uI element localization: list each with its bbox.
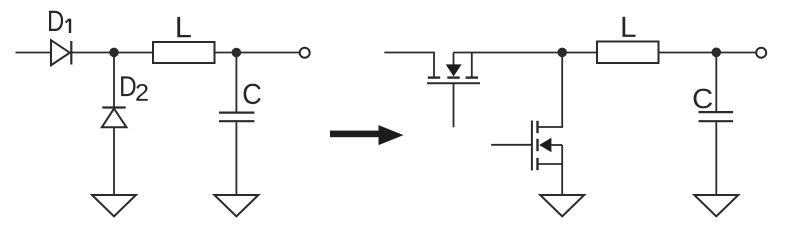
node D junction dot [712, 48, 722, 58]
wire inductor to node D [659, 52, 717, 54]
wire inductor to node B [215, 52, 237, 54]
Q1 body contact [447, 76, 459, 78]
inductor L (right) [597, 42, 659, 64]
Q2 source contact [536, 158, 538, 170]
label D2 subscript 2 [136, 84, 147, 101]
Q2 body lead [551, 144, 562, 146]
Q2 source lead [539, 163, 563, 165]
Q1 gate lead [453, 83, 455, 127]
Q2 gate lead [491, 144, 532, 146]
wire Q1 to node C [454, 52, 563, 54]
Q1 drain contact [428, 76, 440, 78]
wire node C to inductor L (right) [562, 52, 597, 54]
label D2 glyph D [121, 76, 135, 96]
ground (under right capacitor) [694, 195, 738, 216]
output terminal (right circuit) [756, 48, 766, 58]
Q1 gate line [427, 82, 480, 84]
label L right glyph [622, 17, 635, 37]
capacitor C (left) [219, 113, 254, 122]
Q1 body stub + arrow [453, 53, 455, 66]
wire node D to output terminal [716, 52, 756, 54]
inductor L (left) [153, 42, 215, 63]
transistor Q2 (low-side MOSFET) [491, 121, 562, 171]
label D1 subscript 1 [66, 19, 70, 33]
ground (under Q2) [540, 195, 584, 216]
capacitor C (right) [699, 112, 734, 121]
wire capacitor to ground (right) [715, 122, 717, 195]
Q2 drain contact [536, 121, 538, 133]
wire node B to output terminal [236, 52, 299, 54]
Q2 gate line [531, 121, 533, 171]
ground (left, under D2) [92, 195, 136, 216]
Q2 body arrow [539, 138, 551, 153]
big transformation arrow [330, 125, 404, 145]
wire D1 to node A [71, 52, 114, 54]
Q1 source contact [466, 76, 478, 78]
wire node D down to capacitor C (right) [715, 53, 717, 112]
node C junction dot [557, 48, 567, 58]
label D1 glyph D [49, 11, 63, 31]
wire node B down to capacitor C [235, 53, 237, 112]
diode D1 [51, 40, 71, 65]
wire node A to inductor L [114, 52, 153, 54]
ground (under left capacitor) [214, 195, 258, 216]
wire input left [16, 52, 52, 54]
output terminal (left circuit) [300, 48, 310, 58]
wire input right [384, 53, 434, 77]
wire capacitor to ground [235, 122, 237, 195]
transistor Q1 (high-side MOSFET) [427, 53, 480, 128]
wire node C down to Q2 drain [539, 53, 563, 128]
diode D2 [102, 108, 127, 128]
label L left glyph [177, 17, 190, 37]
wire D2 to ground [113, 127, 115, 195]
wire Q2 source to ground [561, 145, 563, 195]
wire node A down to D2 [113, 53, 115, 107]
Q2 body contact [536, 139, 538, 151]
node B junction dot [232, 48, 242, 58]
Q1 source stub [471, 53, 473, 77]
node A junction dot [109, 48, 119, 58]
label C left glyph [244, 84, 261, 104]
label C right glyph [694, 89, 712, 109]
